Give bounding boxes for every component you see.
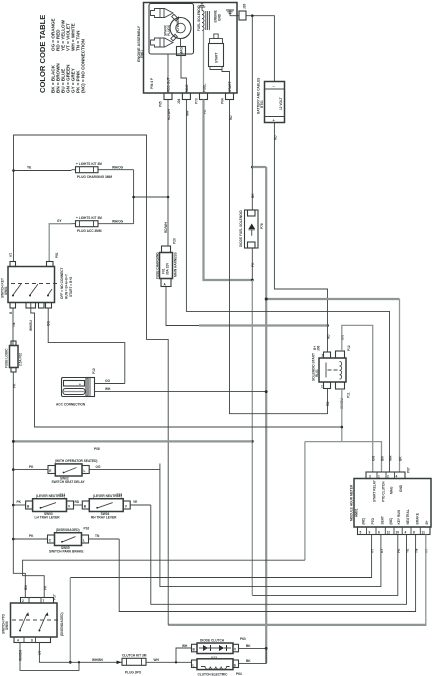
svg-text:ACC CONNECTION: ACC CONNECTION xyxy=(56,403,86,407)
node seat tap xyxy=(12,468,15,471)
wire GY key A up to plug row 2 xyxy=(49,219,71,262)
svg-text:COLOR CODE TABLE: COLOR CODE TABLE xyxy=(38,15,47,93)
svg-text:(NC) = NO CONNECTION: (NC) = NO CONNECTION xyxy=(81,38,86,93)
svg-text:PK: PK xyxy=(17,500,22,504)
svg-text:7: 7 xyxy=(43,599,45,603)
plug lights kit row 2 xyxy=(72,216,103,233)
svg-text:P11: P11 xyxy=(347,392,351,398)
wire GN solenoid S to hour meter xyxy=(342,325,373,472)
svg-text:RL01: RL01 xyxy=(315,369,319,377)
wire PK to neutral lh xyxy=(13,500,25,505)
svg-text:DIODE CLUTCH: DIODE CLUTCH xyxy=(200,639,225,643)
plug clutch 3M xyxy=(122,654,147,675)
wire coil to FUEL pin xyxy=(203,31,205,94)
svg-text:P91: P91 xyxy=(55,252,59,258)
svg-text:L: L xyxy=(84,469,86,473)
wire PK diode to fuel net xyxy=(251,248,255,280)
svg-text:FUEL: FUEL xyxy=(203,84,207,92)
coil ground symbol xyxy=(199,4,205,11)
wire PK bus below fuse xyxy=(12,372,25,598)
svg-text:KEY RUN: KEY RUN xyxy=(397,510,401,525)
svg-text:START = B+S: START = B+S xyxy=(69,277,73,297)
svg-text:BK: BK xyxy=(246,644,251,648)
engine REG OUT pin xyxy=(159,77,173,120)
svg-text:+ LIGHTS KIT 3M: + LIGHTS KIT 3M xyxy=(76,216,102,220)
svg-text:J04: J04 xyxy=(177,98,181,104)
svg-text:SW06: SW06 xyxy=(5,621,9,630)
svg-text:P20: P20 xyxy=(173,238,177,244)
node gnd tee xyxy=(251,166,254,169)
wire WH/BN pto down xyxy=(19,643,80,671)
svg-text:6: 6 xyxy=(378,531,380,535)
fuel solenoid coil xyxy=(197,5,209,31)
svg-text:FUEL SOLENOID: FUEL SOLENOID xyxy=(197,5,201,31)
svg-text:CLUTCH ELECTRIC: CLUTCH ELECTRIC xyxy=(198,672,229,676)
wire BK clutch to gnd xyxy=(239,648,267,663)
key switch loop top xyxy=(14,135,169,625)
node B+ xyxy=(326,324,329,327)
svg-text:4: 4 xyxy=(405,531,407,535)
node regulator junction xyxy=(167,196,170,199)
svg-text:+ LIGHTS KIT 3M: + LIGHTS KIT 3M xyxy=(76,162,102,166)
svg-text:P78: P78 xyxy=(260,223,264,229)
engine MAG pin xyxy=(177,84,190,116)
svg-text:MAG: MAG xyxy=(180,47,184,55)
solenoid start RL01 xyxy=(312,334,352,409)
svg-text:4: 4 xyxy=(17,639,19,643)
svg-text:P05: P05 xyxy=(159,101,163,107)
svg-text:BK: BK xyxy=(398,456,402,461)
svg-text:RD: RD xyxy=(326,401,330,406)
node engine gnd J26 xyxy=(251,14,254,17)
svg-text:PK: PK xyxy=(251,262,255,267)
svg-text:WH: WH xyxy=(154,658,160,662)
svg-text:PK: PK xyxy=(397,548,401,553)
svg-text:SWITCH SEAT DELAY: SWITCH SEAT DELAY xyxy=(52,480,86,484)
wire WH/BU solenoid coil low xyxy=(341,389,343,442)
wire BK diode to gnd xyxy=(239,644,267,649)
svg-text:P17: P17 xyxy=(53,594,57,600)
svg-text:SWITCH PARK BRAKE: SWITCH PARK BRAKE xyxy=(49,549,83,553)
svg-text:RD: RD xyxy=(75,500,80,504)
spark plug 1 xyxy=(151,9,174,18)
svg-text:REG OUT: REG OUT xyxy=(167,77,171,92)
ignition armature inner box xyxy=(149,4,194,55)
node brake tap xyxy=(12,538,15,541)
svg-text:WH/OG: WH/OG xyxy=(112,166,124,170)
svg-text:J26: J26 xyxy=(243,3,247,9)
svg-text:P10: P10 xyxy=(92,368,96,374)
svg-text:11: 11 xyxy=(422,531,426,535)
svg-text:OFF = NO CONNECT: OFF = NO CONNECT xyxy=(60,268,64,299)
svg-text:P14: P14 xyxy=(60,493,66,497)
svg-text:2: 2 xyxy=(387,474,389,478)
node gnd bus tee xyxy=(265,298,268,301)
node diode gnd xyxy=(265,647,268,650)
wire RD neutral mid xyxy=(74,500,83,505)
wire YE to plug row 1 xyxy=(14,166,72,171)
node solenoid coil / key start xyxy=(341,426,344,429)
svg-text:1: 1 xyxy=(378,474,380,478)
svg-text:WH/BU: WH/BU xyxy=(29,320,33,331)
svg-text:PK: PK xyxy=(12,383,16,388)
svg-text:(NC): (NC) xyxy=(362,518,366,525)
svg-text:SW01: SW01 xyxy=(4,286,8,295)
connector J26 xyxy=(239,3,247,20)
switch neutral rh SW04 xyxy=(82,493,130,519)
svg-text:TN: TN xyxy=(12,322,16,327)
magnet bar 2 xyxy=(171,34,178,41)
magnet bar 1 xyxy=(172,14,179,21)
svg-text:8: 8 xyxy=(413,531,415,535)
wire WH mag from engine to hour meter xyxy=(186,100,389,473)
wire TN key to logic fuse xyxy=(12,308,14,346)
svg-text:FLYWHEEL: FLYWHEEL xyxy=(176,16,180,33)
engine FUEL pin xyxy=(195,84,208,114)
fuse logic F02 xyxy=(5,341,23,372)
wire gnd tee to gray gnd bus xyxy=(252,166,266,168)
svg-text:MAIN HARNESS: MAIN HARNESS xyxy=(174,252,178,277)
node bracket mid xyxy=(132,196,135,199)
svg-text:BK: BK xyxy=(251,193,255,198)
ignition module MAG box xyxy=(177,39,186,56)
svg-text:PLUG ACC 3MM: PLUG ACC 3MM xyxy=(77,229,102,233)
svg-text:BN: BN xyxy=(24,585,28,590)
wire VT riser to clutch junction xyxy=(69,578,71,663)
wire YE neutral out xyxy=(130,500,151,505)
svg-text:RUN = B+A+X+Y: RUN = B+A+X+Y xyxy=(65,273,69,299)
svg-text:P/N 4 P: P/N 4 P xyxy=(150,77,154,89)
wire RD start from engine to solenoid contact xyxy=(230,100,328,414)
svg-text:MAG: MAG xyxy=(185,84,189,92)
spark plugs label xyxy=(164,24,172,36)
wire TN brake out xyxy=(89,534,120,539)
wire VT pto down xyxy=(38,643,122,663)
svg-text:2: 2 xyxy=(322,354,324,358)
wire MAG box to MAG pin xyxy=(181,56,186,94)
svg-text:+: + xyxy=(79,383,81,387)
svg-text:PTO: PTO xyxy=(371,517,375,524)
svg-text:L: L xyxy=(193,663,195,667)
svg-text:PTO CLUTCH: PTO CLUTCH xyxy=(382,481,386,502)
wire WH/BN label to clutch plug xyxy=(92,658,122,664)
svg-text:5: 5 xyxy=(360,531,362,535)
flywheel xyxy=(170,16,191,39)
svg-text:BT01: BT01 xyxy=(260,100,264,108)
node fuel junction xyxy=(251,279,254,282)
svg-text:GN: GN xyxy=(341,335,345,340)
svg-text:GND: GND xyxy=(218,13,222,21)
svg-text:PK: PK xyxy=(44,585,48,590)
wire starter to START pin xyxy=(222,70,230,94)
svg-text:START: START xyxy=(228,82,232,92)
svg-text:RH TRAV LEVER: RH TRAV LEVER xyxy=(91,515,117,519)
clutch electric CL01 xyxy=(192,659,242,676)
switch park brake SW05 xyxy=(48,527,90,554)
svg-text:B+: B+ xyxy=(425,520,429,524)
engine assembly box ENG01 xyxy=(137,3,237,94)
wire pto switch feed drop xyxy=(304,442,306,561)
svg-text:(DISENGAGED): (DISENGAGED) xyxy=(60,612,64,636)
svg-text:P08: P08 xyxy=(94,447,100,451)
engine START pin xyxy=(221,82,234,120)
wire J26 to battery neg and gnd bus xyxy=(246,16,274,82)
svg-text:VT: VT xyxy=(38,651,42,655)
svg-text:GN: GN xyxy=(372,456,376,461)
svg-text:12 VOLT: 12 VOLT xyxy=(279,97,283,110)
wire PK fuel net down to hour meter xyxy=(251,280,253,595)
wire RD/WH fuse to B+ (thin then heavy) xyxy=(166,287,200,326)
svg-text:BK: BK xyxy=(246,659,251,663)
wire WH/OG row 1 to bracket xyxy=(102,166,134,170)
bracket plugs to regulator xyxy=(134,170,168,224)
svg-text:START: START xyxy=(215,53,219,63)
svg-text:L: L xyxy=(83,539,85,543)
svg-text:VT: VT xyxy=(371,549,375,553)
wire OG seat out xyxy=(89,465,160,470)
wire VT hour meter B+ sense xyxy=(425,535,427,625)
switch neutral lh SW03 xyxy=(26,493,74,519)
svg-text:PLUG CHARGING 3MM: PLUG CHARGING 3MM xyxy=(77,175,112,179)
svg-text:BRAKE: BRAKE xyxy=(415,513,419,524)
svg-text:YE: YE xyxy=(133,500,137,504)
svg-text:J06: J06 xyxy=(317,345,321,351)
svg-text:2.5A F02: 2.5A F02 xyxy=(19,353,23,366)
fuse charging F01 xyxy=(156,238,178,286)
svg-text:2: 2 xyxy=(22,599,24,603)
svg-text:CLUTCH KIT 3M: CLUTCH KIT 3M xyxy=(122,654,147,658)
svg-text:MAG: MAG xyxy=(390,486,394,494)
svg-text:GND: GND xyxy=(399,484,403,492)
wire RD/WH regulator down to fuse xyxy=(164,100,168,247)
svg-text:TN: TN xyxy=(415,548,419,553)
wire TN hour meter brake xyxy=(119,535,415,612)
wire PK to brake switch xyxy=(13,534,47,539)
node bus top xyxy=(12,440,15,443)
engine gnd symbol xyxy=(214,10,235,23)
wire diode drop xyxy=(176,648,192,662)
wire PK bus to BN fuel line (heavy) xyxy=(13,440,252,442)
node clutch wh/bn xyxy=(78,661,80,663)
svg-text:RD: RD xyxy=(274,135,278,140)
diode clutch xyxy=(182,637,246,660)
wire OG acc feed xyxy=(95,379,125,384)
hour meter module HM01 xyxy=(350,455,432,553)
svg-text:FUSE LOGIC: FUSE LOGIC xyxy=(5,348,9,368)
svg-text:P73: P73 xyxy=(195,98,199,104)
wire RD battery plus down xyxy=(274,123,328,353)
svg-text:10: 10 xyxy=(396,531,400,535)
wire WH acc return to gnd bus xyxy=(95,387,267,392)
wire WH/OG row 2 to bracket xyxy=(102,220,134,224)
svg-text:PLUG 3PO: PLUG 3PO xyxy=(125,671,142,675)
svg-text:BN: BN xyxy=(380,456,384,461)
wire VT hour meter pto out xyxy=(70,535,371,578)
svg-text:WH/BN: WH/BN xyxy=(92,658,103,662)
wire gray FUEL from engine to diode net xyxy=(204,100,253,281)
switch seat SW02 xyxy=(48,447,100,484)
svg-text:P12: P12 xyxy=(347,345,351,351)
svg-text:RD: RD xyxy=(327,334,331,339)
svg-text:1: 1 xyxy=(321,385,323,389)
plug lights kit row 1 xyxy=(72,162,113,179)
svg-text:(WITH OPERATOR SEATED): (WITH OPERATOR SEATED) xyxy=(55,459,98,463)
svg-text:YE: YE xyxy=(27,166,31,170)
svg-text:8: 8 xyxy=(31,639,33,643)
svg-text:E: E xyxy=(49,469,51,473)
svg-text:PK: PK xyxy=(29,465,34,469)
wire engine gnd to J26 xyxy=(230,15,239,17)
node key loop tap xyxy=(12,169,15,172)
svg-text:WH: WH xyxy=(182,644,188,648)
svg-text:(NC): (NC) xyxy=(389,518,393,525)
svg-text:WH: WH xyxy=(388,455,392,461)
svg-text:PK: PK xyxy=(29,534,34,538)
svg-text:OG: OG xyxy=(96,465,101,469)
svg-text:4: 4 xyxy=(396,474,398,478)
gray gnd tee to hour meter gnd xyxy=(266,298,399,300)
svg-text:3: 3 xyxy=(369,474,371,478)
svg-text:MODULE HOUR METER: MODULE HOUR METER xyxy=(350,484,354,521)
svg-text:FUSE CHARGING: FUSE CHARGING xyxy=(156,252,160,279)
wire GY hour meter seat xyxy=(160,464,381,587)
wire BN hour meter pto clutch feed xyxy=(305,442,382,472)
svg-text:P16: P16 xyxy=(84,527,90,531)
svg-text:TN: TN xyxy=(95,534,100,538)
acc connection P10 xyxy=(56,368,96,406)
node diode tap xyxy=(175,661,177,663)
svg-text:LH TRAV LEVER: LH TRAV LEVER xyxy=(35,515,61,519)
svg-text:30A 32V: 30A 32V xyxy=(166,262,170,275)
svg-text:EN01: EN01 xyxy=(140,50,144,58)
node clutch feed xyxy=(69,661,72,664)
wire YE hour meter neutral xyxy=(151,505,407,604)
wire PK to seat switch xyxy=(13,465,48,470)
battery BT01 xyxy=(257,78,285,123)
node acc gnd xyxy=(265,390,268,393)
spark plug 2 xyxy=(151,38,174,47)
node neutral tap xyxy=(12,504,15,507)
svg-text:WH: WH xyxy=(105,387,111,391)
wire WH/BU key to solenoid xyxy=(31,308,342,427)
color code table xyxy=(38,15,86,93)
node fuel-bus junction xyxy=(251,440,254,443)
svg-text:(DISENGAGED): (DISENGAGED) xyxy=(56,528,80,532)
svg-text:WH/BN: WH/BN xyxy=(19,650,23,661)
svg-text:P63: P63 xyxy=(240,637,246,641)
svg-text:12: 12 xyxy=(387,531,391,535)
svg-text:P04: P04 xyxy=(221,98,225,104)
svg-text:P64: P64 xyxy=(236,672,242,676)
svg-text:VT: VT xyxy=(9,253,13,257)
gray gnd bus vertical xyxy=(265,167,267,663)
svg-text:E: E xyxy=(234,663,236,667)
starter motor xyxy=(209,34,224,70)
svg-text:P07: P07 xyxy=(407,467,411,473)
svg-text:P15: P15 xyxy=(117,493,123,497)
wire armature to REG OUT pin xyxy=(167,54,169,93)
wire BK engine gnd down xyxy=(251,16,255,210)
diode fuel solenoid P78 xyxy=(239,210,264,248)
wire WH clutch plug to coil xyxy=(146,658,192,663)
svg-text:RD/WH: RD/WH xyxy=(164,222,168,233)
svg-text:HM01: HM01 xyxy=(355,508,359,517)
svg-text:NEUTRAL: NEUTRAL xyxy=(406,509,410,524)
svg-text:DIODE FUEL SOLENOID: DIODE FUEL SOLENOID xyxy=(239,210,243,247)
wire OG key to acc connection xyxy=(48,308,125,384)
svg-text:START RELAY: START RELAY xyxy=(373,479,377,502)
svg-text:9: 9 xyxy=(369,531,371,535)
svg-text:SEAT: SEAT xyxy=(380,516,384,524)
key switch SW01 xyxy=(1,252,74,331)
switch pto SW06 xyxy=(2,594,65,642)
svg-text:OG: OG xyxy=(105,379,110,383)
svg-text:WH/OG: WH/OG xyxy=(112,220,124,224)
